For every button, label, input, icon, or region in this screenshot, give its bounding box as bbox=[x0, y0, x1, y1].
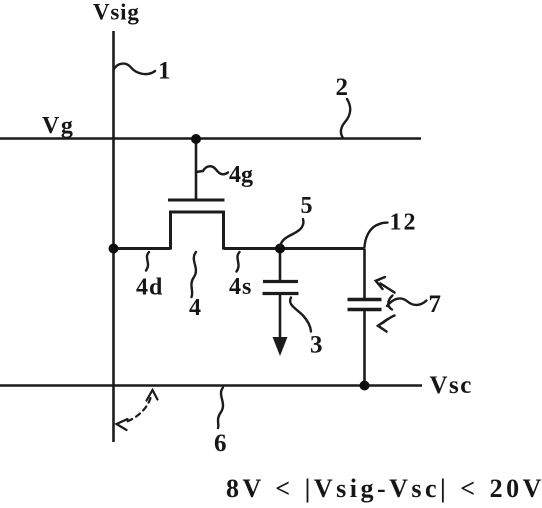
svg-text:12: 12 bbox=[390, 210, 418, 236]
svg-text:7: 7 bbox=[429, 291, 442, 318]
svg-text:6: 6 bbox=[214, 430, 227, 457]
svg-text:2: 2 bbox=[336, 74, 349, 101]
svg-text:4d: 4d bbox=[136, 275, 163, 301]
svg-text:4g: 4g bbox=[229, 162, 253, 188]
svg-text:Vsc: Vsc bbox=[430, 372, 473, 399]
svg-text:4: 4 bbox=[189, 295, 201, 321]
svg-text:Vsig: Vsig bbox=[93, 0, 140, 25]
svg-text:3: 3 bbox=[310, 332, 323, 359]
svg-text:1: 1 bbox=[158, 58, 171, 85]
svg-text:8V < |Vsig-Vsc| < 20V: 8V < |Vsig-Vsc| < 20V bbox=[226, 474, 542, 503]
svg-text:Vg: Vg bbox=[42, 113, 74, 139]
svg-text:5: 5 bbox=[301, 193, 313, 219]
svg-text:4s: 4s bbox=[229, 274, 252, 300]
